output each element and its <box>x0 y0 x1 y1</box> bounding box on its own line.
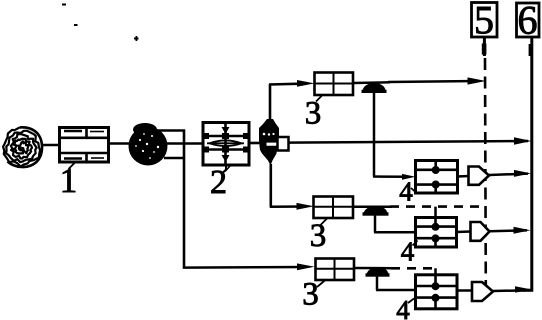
branch vertical wire <box>183 130 186 269</box>
dashed line below box 5 <box>483 37 486 56</box>
label 1 leader <box>69 163 76 170</box>
label 4b leader <box>413 241 418 246</box>
junction c drop wire <box>376 276 379 290</box>
solid line below box 6 <box>522 37 532 290</box>
arrowhead at dashed line <box>468 77 487 84</box>
block 3c <box>315 258 354 280</box>
speck cross <box>134 38 139 40</box>
wire block1 to mixer circle <box>108 142 131 145</box>
block 4a dots <box>432 166 440 174</box>
arrowhead into block 3a <box>297 80 315 87</box>
junction dome b <box>363 206 388 216</box>
block 3a <box>314 72 353 95</box>
svg-text:5: 5 <box>474 0 494 43</box>
stub mixer top to branch <box>158 129 185 132</box>
junction dome a <box>362 83 386 93</box>
separator lower body <box>260 146 278 166</box>
tag pentagon c <box>472 282 493 301</box>
arrowhead tag b wire <box>514 227 531 234</box>
stub mixer bottom to branch <box>164 157 185 160</box>
label 4c leader <box>408 299 414 304</box>
wire 3b to junction b <box>353 206 392 209</box>
wire tag a to right line <box>489 174 528 175</box>
wire junction a to dashed line <box>388 81 478 82</box>
wire tag c to right line corner <box>493 289 533 292</box>
block 4c dots <box>432 282 440 290</box>
tag pentagon b <box>471 222 490 241</box>
label 3b leader <box>320 219 327 226</box>
control stub into block 4c <box>434 268 437 275</box>
wire 3c to junction c <box>354 267 393 270</box>
box 6 <box>517 3 540 37</box>
wire mixer to block 2 <box>166 142 203 145</box>
svg-text:4: 4 <box>399 177 413 207</box>
wire block2 to separator <box>249 142 260 145</box>
wire 4a to tag a <box>457 175 469 178</box>
wire into block 4c <box>376 289 416 292</box>
svg-text:6: 6 <box>518 0 538 43</box>
control stub into block 4b <box>434 207 437 218</box>
svg-text:3: 3 <box>302 277 319 313</box>
block 4b dots <box>432 223 440 231</box>
wire source to block 1 <box>41 144 60 147</box>
svg-text:2: 2 <box>210 164 227 201</box>
wire 4b to tag b <box>456 230 471 233</box>
block 4a <box>415 160 458 193</box>
arrowhead into block 4a <box>402 174 416 180</box>
block 1 <box>59 127 109 162</box>
svg-text:3: 3 <box>305 96 322 132</box>
label 3c leader <box>317 280 326 288</box>
top corner wire to block 3a <box>269 82 306 86</box>
arrowhead into block 3b <box>297 203 315 210</box>
wire 3a to junction <box>353 81 390 84</box>
branch bottom wire to block 3c <box>183 266 306 269</box>
separator stem down <box>269 164 272 208</box>
source scribble circle (left) <box>3 127 42 167</box>
dashed control wire b <box>390 205 485 208</box>
separator white dots <box>263 133 275 136</box>
arrowhead main wire <box>514 137 532 145</box>
dashed control wire c <box>391 267 436 270</box>
wire into block 4a <box>373 175 408 178</box>
speck dash <box>74 24 78 26</box>
block 2 <box>203 122 249 165</box>
block 4c <box>415 274 457 309</box>
dark mixer circle <box>129 123 168 166</box>
arrowhead into block 3c <box>297 263 315 270</box>
wire into block 4b <box>374 231 416 234</box>
svg-text:4: 4 <box>401 237 415 267</box>
junction dome c <box>366 267 389 277</box>
separator stem up <box>269 84 272 122</box>
box 5 <box>472 3 498 38</box>
svg-text:1: 1 <box>60 161 78 200</box>
speck dash <box>62 4 66 6</box>
wire tag b to right line <box>490 229 528 232</box>
block 2 outlet tail <box>223 165 227 173</box>
svg-text:4: 4 <box>396 295 410 320</box>
arrowhead tag a wire <box>514 170 531 177</box>
mid corner wire into block 3b <box>270 205 306 208</box>
junction a drop wire <box>373 92 376 177</box>
junction b drop wire <box>374 215 377 233</box>
block 3b <box>313 196 353 218</box>
label 4a leader <box>411 188 416 193</box>
label 2 leader <box>225 166 230 172</box>
main long wire to right line <box>289 141 528 143</box>
thick arrowhead tag c wire <box>515 286 533 292</box>
separator upper body <box>259 119 279 143</box>
svg-text:3: 3 <box>310 218 327 254</box>
block 4b <box>415 217 457 247</box>
label 3a leader <box>316 96 322 102</box>
wire 4c to tag c <box>457 289 473 292</box>
separator outlet rect <box>278 137 289 151</box>
tag pentagon a <box>469 167 490 185</box>
